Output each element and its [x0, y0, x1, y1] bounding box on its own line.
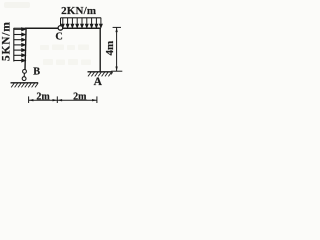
svg-text:2m: 2m [73, 91, 87, 102]
right column (member to support A) [99, 28, 101, 72]
faint bleed-through text row 1 [40, 45, 89, 51]
left column (member with 5KN/m load) [25, 28, 26, 70]
lower circle of rocker support B [22, 77, 26, 81]
dimension tick right [96, 96, 98, 103]
dimension arrowheads right [115, 28, 117, 71]
distributed load 5KN/m: top closing edge [14, 27, 26, 29]
distributed load 5KN/m: left reference line [13, 28, 15, 62]
beam CB top horizontal member [25, 27, 101, 29]
ground line at B [11, 82, 39, 84]
dimension tick middle [56, 96, 58, 103]
svg-text:A: A [94, 76, 103, 88]
ground hatching at A [88, 72, 113, 76]
dimension arrowheads bottom [29, 99, 97, 101]
faint bleed-through text row 2 [43, 59, 91, 65]
ground hatching at B [11, 83, 38, 87]
faint smudge top-left [4, 2, 30, 8]
svg-text:C: C [55, 31, 62, 42]
distributed load 2KN/m: arrows [62, 18, 103, 27]
svg-text:5KN/m: 5KN/m [1, 22, 13, 61]
distributed load 5KN/m: arrows [14, 28, 25, 62]
bottom dimension line [29, 99, 97, 101]
dimension tick left [28, 96, 30, 103]
background [0, 0, 127, 107]
svg-text:2KN/m: 2KN/m [61, 5, 96, 17]
ground line at A [88, 71, 113, 73]
hinge C [58, 26, 63, 31]
pin circle at B (member end) [23, 70, 27, 74]
svg-text:2m: 2m [36, 91, 50, 102]
svg-text:B: B [33, 67, 40, 78]
distributed load 2KN/m: left closing edge [60, 18, 62, 25]
dimension tick top right [113, 26, 121, 28]
distributed load 2KN/m: top reference line [61, 17, 102, 19]
link of rocker support B [23, 73, 25, 76]
svg-text:4m: 4m [104, 41, 116, 56]
right dimension line 4m [116, 27, 118, 71]
dimension tick bottom right [111, 70, 122, 72]
